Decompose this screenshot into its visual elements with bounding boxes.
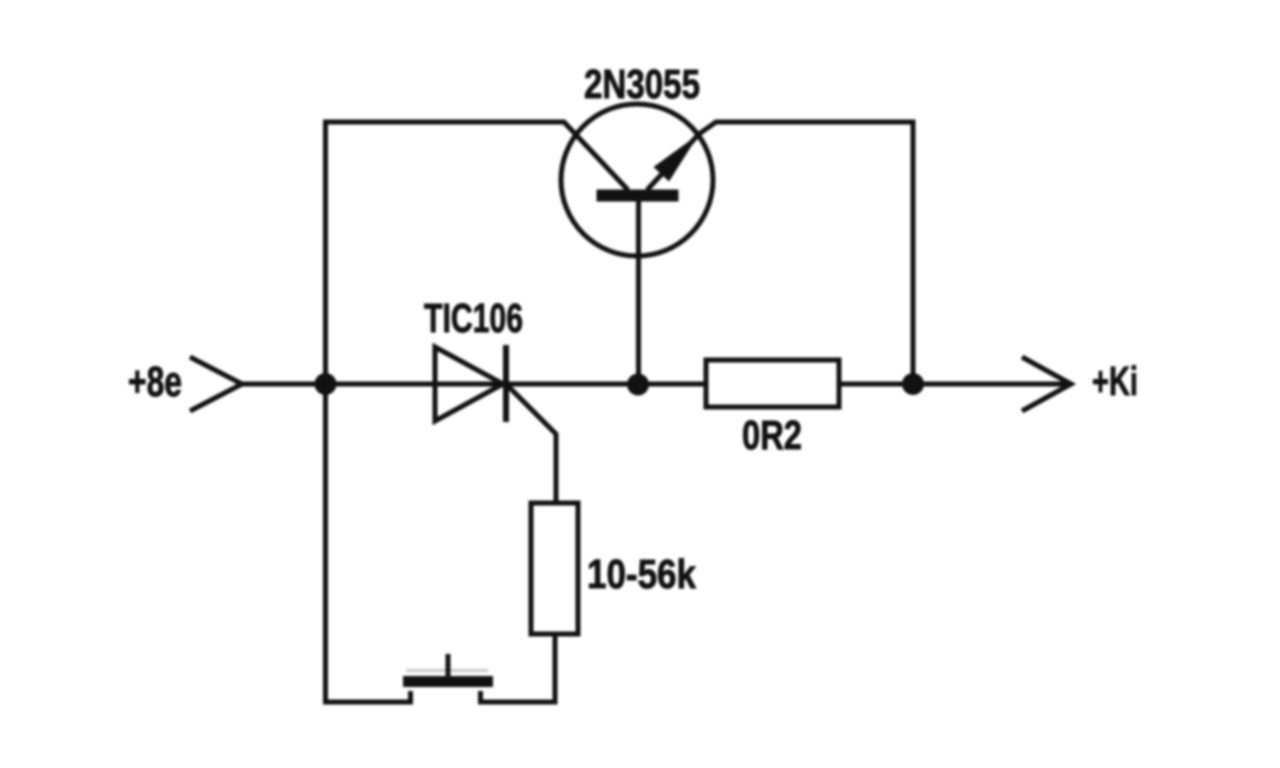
- svg-text:0R2: 0R2: [742, 412, 802, 458]
- svg-text:+Ki: +Ki: [1092, 358, 1138, 404]
- svg-text:2N3055: 2N3055: [584, 61, 700, 107]
- svg-text:10-56k: 10-56k: [587, 551, 696, 597]
- svg-text:TIC106: TIC106: [424, 295, 523, 341]
- svg-text:+8e: +8e: [128, 358, 182, 406]
